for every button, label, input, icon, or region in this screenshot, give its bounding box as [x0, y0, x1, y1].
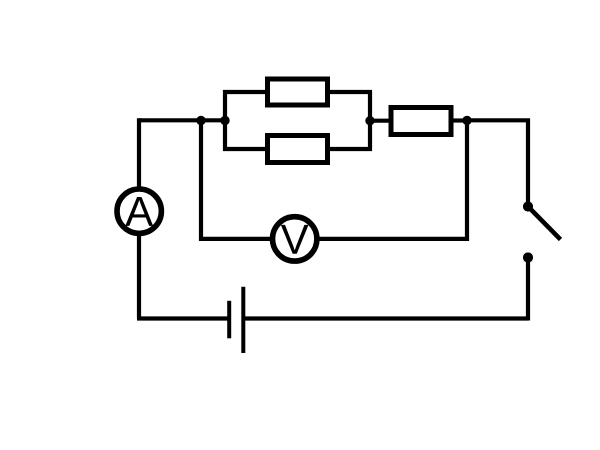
- wire voltmeter loop right side: [320, 120, 468, 239]
- wire top-left horizontal from left branch to parallel network: [139, 118, 225, 122]
- voltmeter V: [273, 217, 317, 261]
- node D junction dot right of series resistor: [462, 116, 471, 125]
- wire bottom left (to battery): [137, 316, 229, 320]
- battery: [229, 287, 243, 353]
- resistor R2 (bottom of parallel pair): [268, 136, 328, 163]
- node A junction dot voltmeter tap: [196, 116, 205, 125]
- wire left vertical lower (ammeter down to bottom wire): [137, 236, 141, 319]
- resistor R1 (top of parallel pair): [268, 79, 328, 105]
- wire voltmeter loop left side: [201, 120, 270, 239]
- wire left vertical upper (top corner down to ammeter): [137, 118, 141, 186]
- wire bottom right (battery to right branch): [243, 316, 528, 320]
- wire parallel network left vertical with stubs: [225, 92, 266, 149]
- wire right vertical lower (bottom corner up to switch contact): [526, 258, 530, 321]
- wire right vertical upper and top segment to series resistor: [467, 120, 528, 206]
- wire node C to series resistor: [370, 119, 389, 123]
- ammeter A: [117, 189, 161, 233]
- node B junction dot parallel network left: [220, 116, 229, 125]
- resistor R3 (series): [391, 108, 451, 135]
- switch S1 open blade with contacts: [523, 201, 561, 262]
- wire series resistor to node D: [453, 118, 467, 122]
- wire parallel network right vertical with stubs: [330, 92, 371, 149]
- node C junction dot parallel network right: [365, 116, 374, 125]
